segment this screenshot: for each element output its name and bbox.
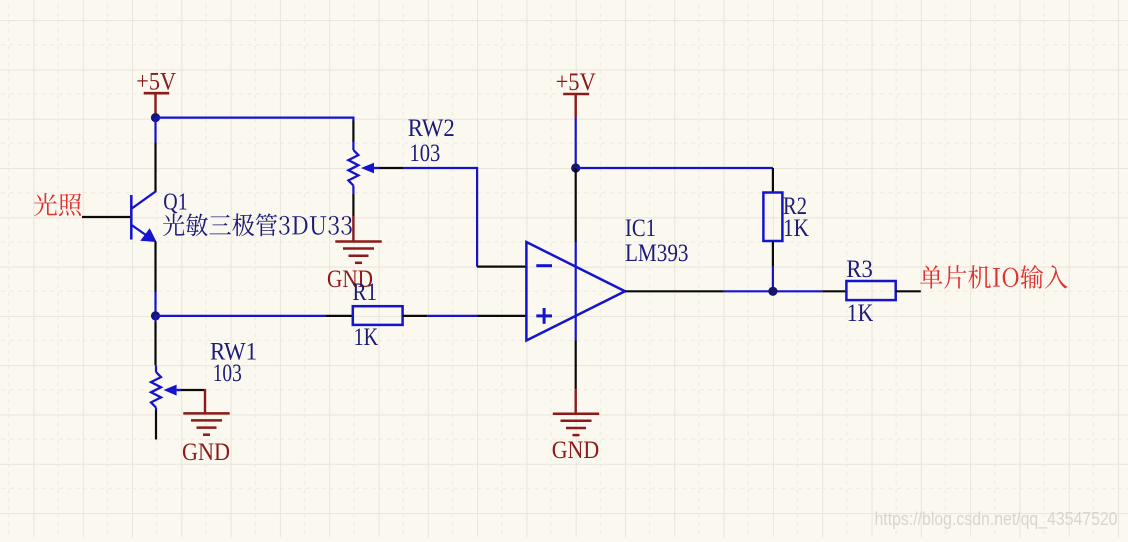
pin R1 left [326, 315, 353, 317]
label 光敏三极管3DU33 [163, 213, 352, 236]
pin R3 right [896, 290, 921, 292]
svg-text:1K: 1K [783, 213, 809, 242]
pin R2 top [772, 168, 774, 193]
svg-text:103: 103 [213, 358, 242, 387]
svg-text:LM393: LM393 [625, 238, 689, 267]
ground GND (RW2) [335, 216, 381, 263]
wire R2 to output node [772, 267, 774, 292]
pin plus input (IC1) [477, 315, 526, 317]
svg-text:R3: R3 [846, 254, 872, 283]
svg-text:GND: GND [552, 435, 600, 464]
transistor Q1 [131, 191, 156, 242]
pin RW2 top [352, 121, 354, 143]
pin 4 V- (IC1) [575, 341, 577, 390]
wire node to R1 [156, 315, 327, 317]
svg-text:GND: GND [182, 437, 230, 466]
pin R3 left [822, 290, 846, 292]
pin collector Q1 [154, 143, 156, 193]
wire V+ to R2 [576, 167, 773, 169]
pin R2 bottom [772, 241, 774, 267]
pin RW1 top [154, 322, 156, 365]
svg-text:1K: 1K [847, 298, 874, 327]
pin base Q1 [82, 216, 130, 218]
pin RW2 bottom [352, 193, 354, 216]
svg-text:+5V: +5V [556, 67, 597, 96]
pin output (IC1) [625, 290, 724, 292]
svg-text:Q1: Q1 [163, 190, 187, 216]
svg-text:1K: 1K [354, 322, 379, 351]
svg-text:https://blog.csdn.net/qq_43547: https://blog.csdn.net/qq_43547520 [875, 509, 1118, 530]
junction node V+ [571, 163, 580, 172]
wire collector (blue segment) [154, 118, 156, 143]
wire node to RW1 [154, 316, 156, 322]
net label 单片机IO输入 [920, 265, 1067, 289]
junction node output [768, 287, 777, 296]
pin RW1 bottom (open) [155, 411, 157, 440]
pin R1 right [403, 315, 428, 317]
wire emitter to node [154, 292, 156, 316]
pin minus input (IC1) [477, 266, 526, 268]
wire +5V to RW2 top [156, 118, 354, 121]
wire RW2 wiper to comparator minus [380, 167, 404, 169]
resistor R1 [353, 306, 403, 325]
svg-text:R1: R1 [353, 277, 378, 306]
junction node divider [151, 311, 160, 320]
potentiometer RW1 [151, 365, 181, 410]
pin 8 V+ (IC1) [575, 168, 577, 242]
wire +5V center down [575, 117, 577, 168]
resistor R3 [846, 281, 895, 300]
power port +5V (center) [556, 67, 597, 117]
pin emitter Q1 [154, 242, 156, 293]
potentiometer RW2 [348, 142, 379, 193]
wire RW1 wiper to ground [181, 389, 206, 391]
resistor R2 [763, 193, 782, 242]
svg-text:103: 103 [410, 138, 441, 167]
ground GND (RW1) [183, 389, 229, 435]
ground GND (IC1) [553, 389, 599, 435]
power port +5V (left) [136, 67, 176, 119]
op-amp IC1 [526, 242, 625, 341]
svg-text:+5V: +5V [136, 67, 176, 96]
wire R1 to comparator plus [427, 315, 477, 317]
junction node VCC-left [151, 113, 160, 122]
wire output [724, 290, 823, 292]
net label 光照 [34, 193, 81, 216]
